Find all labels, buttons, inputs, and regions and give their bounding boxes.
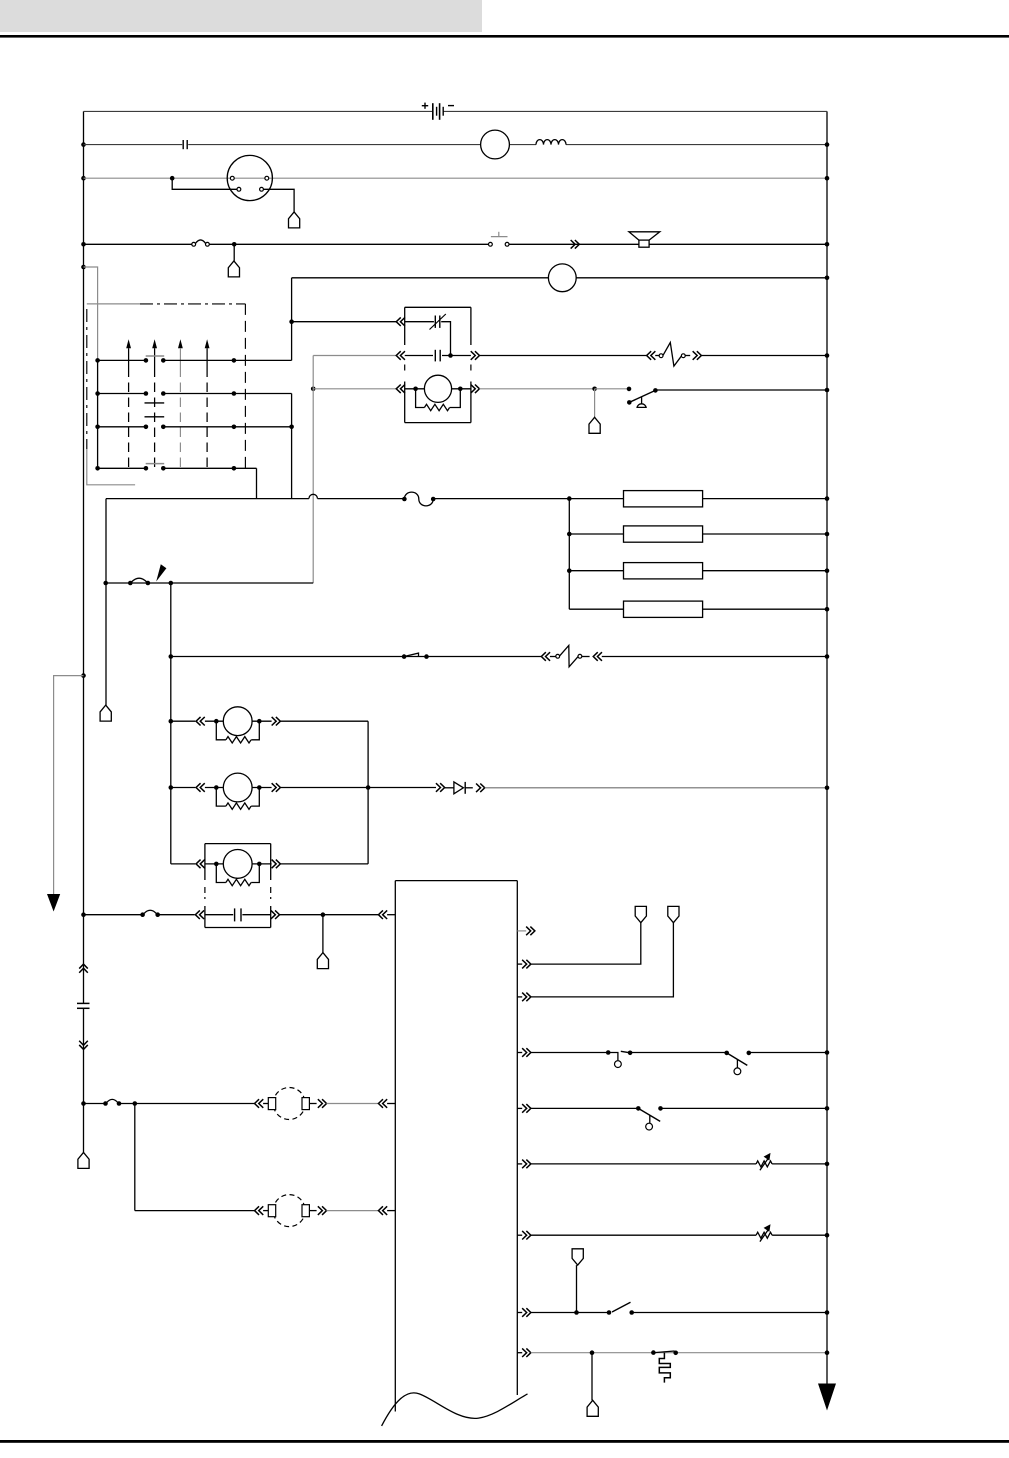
bus connector chevrons up (79, 964, 88, 973)
relay row1 : variable capacitor (396, 317, 405, 326)
header gray bar (0, 0, 482, 32)
wire (602, 656, 827, 658)
antenna motor M5 (171, 863, 196, 865)
header rule (0, 35, 1009, 38)
lamp M2 (548, 264, 576, 292)
wire (701, 355, 827, 357)
node (169, 719, 174, 724)
wire (594, 389, 596, 418)
wire (105, 499, 107, 705)
wire: horn row 2 (135, 1210, 255, 1212)
node (289, 319, 294, 324)
node (289, 425, 294, 430)
wire (485, 787, 827, 789)
wire: door switch row (517, 1052, 522, 1054)
wire hop (309, 494, 318, 498)
wire: tag feed 2 (517, 996, 522, 998)
connector tag (635, 906, 646, 922)
right bus ground arrow (818, 1384, 836, 1411)
capacitor C3 (77, 1002, 90, 1004)
connector tag (228, 261, 239, 277)
node (169, 785, 174, 790)
node (574, 1310, 579, 1315)
node (232, 242, 237, 247)
node (169, 581, 174, 586)
resistor R3 (569, 570, 623, 572)
wire (291, 278, 293, 361)
wire: distributor row (81, 176, 86, 181)
door switch SW4 (724, 1051, 729, 1056)
wire: to relay row1 (292, 321, 397, 323)
wiper arrow (205, 339, 210, 348)
junction box torn edge (382, 1393, 528, 1426)
resistor (216, 721, 226, 740)
ignition row 3 (95, 425, 100, 430)
speaker SP1 (629, 232, 660, 240)
wire (591, 1353, 593, 1401)
capacitor C2 (234, 908, 236, 921)
ignition switch box (87, 303, 140, 305)
node: distributor branch (170, 176, 175, 181)
rheostat VR2 (756, 1232, 772, 1238)
circuit breaker CB2 (541, 652, 550, 661)
thermal breaker (651, 1350, 656, 1355)
connector tag (589, 417, 600, 433)
wire: top feed (84, 110, 433, 112)
horn H1 (255, 1099, 264, 1108)
door switch SW3 (606, 1050, 611, 1055)
ignition feed wire (81, 265, 86, 270)
ignition row 4 (95, 466, 100, 471)
wire: switch row 5 (517, 1107, 522, 1109)
washer motor M4 (171, 787, 196, 789)
wire: ignition coil feed (81, 142, 86, 147)
wire: thermo row (517, 1352, 522, 1354)
wire (576, 1265, 578, 1312)
footer rule (0, 1440, 1009, 1443)
wire (655, 389, 827, 391)
distributor (227, 155, 272, 200)
resistor block feeder (568, 499, 570, 610)
wire: rheostat row 2 (517, 1234, 522, 1236)
wire (433, 498, 623, 500)
node (366, 785, 371, 790)
wire (170, 583, 172, 864)
wire: charge lamp row (292, 277, 827, 279)
wire (233, 244, 235, 261)
fusible link FL1 (128, 581, 133, 586)
connector tag (668, 906, 679, 922)
radio/relay box (405, 306, 471, 308)
ignition row 1 (95, 358, 100, 363)
wire (264, 189, 295, 212)
wire: horn row 1 (81, 1101, 86, 1106)
resistor (216, 864, 226, 883)
bus connector chevrons down (79, 1041, 88, 1050)
wire: hand brake switch row (517, 1312, 522, 1314)
connector stub (517, 930, 526, 932)
node (590, 1350, 595, 1355)
wire (479, 388, 594, 390)
wire (368, 787, 436, 789)
wire (134, 1104, 136, 1211)
relay row3 : motor (311, 387, 316, 392)
junction box (395, 880, 517, 882)
wire (280, 914, 379, 916)
capacitor on wiper 2 (145, 402, 165, 404)
capacitor C1 (182, 140, 184, 149)
left bus wire (83, 111, 85, 1003)
fuse F1 (192, 242, 196, 246)
node (103, 581, 108, 586)
resistor R0 (416, 389, 425, 408)
wire (367, 721, 369, 864)
wire (595, 388, 629, 390)
wire: row2 drop (291, 394, 293, 499)
ignition row 2 (95, 391, 100, 396)
wiper arrow (126, 339, 131, 348)
connector tag (78, 1152, 89, 1168)
wire: row4 drop (256, 468, 258, 498)
connector tag (100, 705, 111, 721)
fusible link FL3 (103, 1101, 108, 1106)
wire (172, 178, 237, 189)
switch SW5 (636, 1106, 641, 1111)
direction arrow (402, 654, 407, 659)
wire: continuation arrow (81, 673, 86, 678)
connector tag (587, 1400, 598, 1416)
resistor (216, 788, 226, 807)
wiper motor M3 (171, 720, 196, 722)
antenna motor box (205, 843, 271, 845)
brake switch SW6 (607, 1310, 612, 1315)
wire: antenna feed row (81, 912, 86, 917)
fusible link FL2 (140, 912, 145, 917)
connector tag (289, 212, 300, 228)
wiper arrow (152, 339, 157, 348)
oil pressure switch SW2 (627, 387, 632, 392)
circuit breaker CB1 (647, 351, 656, 360)
ignition switch common rail (97, 360, 99, 468)
inductor L1 (536, 140, 566, 145)
wire (322, 915, 324, 953)
flag marker (156, 564, 166, 581)
diode D1 (454, 782, 464, 794)
resistor R2 (569, 533, 623, 535)
battery (432, 103, 434, 120)
wire: tail lamp row (169, 654, 174, 659)
wire: fuse row (106, 498, 309, 500)
relay row2 : capacitor (313, 355, 396, 357)
connector tag (572, 1249, 583, 1265)
right bus wire (826, 111, 828, 1384)
wire (479, 355, 646, 357)
wire: accessory row (81, 242, 86, 247)
connector tag (317, 953, 328, 969)
wire (312, 356, 314, 584)
resistor R4 (569, 608, 623, 610)
wiper arrow (178, 339, 183, 348)
wire: rheostat row 1 (517, 1163, 522, 1165)
gauge M1 (481, 130, 510, 159)
fuse F2 (402, 497, 407, 502)
wire: fusible link row (106, 582, 314, 584)
rheostat VR1 (756, 1161, 772, 1167)
resistor R1 (624, 491, 703, 507)
connector chevron (571, 240, 580, 249)
horn H2 (255, 1206, 264, 1215)
push switch SW1 (489, 242, 493, 246)
wire: tag feed 1 (517, 963, 522, 965)
